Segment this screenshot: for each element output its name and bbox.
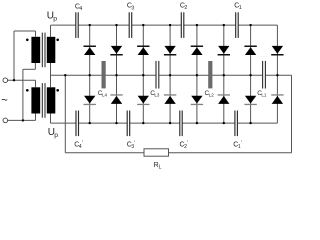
svg-text:p: p bbox=[54, 132, 58, 139]
svg-text:L2: L2 bbox=[209, 92, 215, 97]
svg-text:': ' bbox=[187, 140, 188, 146]
svg-text:~: ~ bbox=[1, 95, 7, 107]
svg-text:L: L bbox=[159, 164, 162, 170]
svg-text:1: 1 bbox=[239, 5, 242, 11]
svg-text:': ' bbox=[134, 140, 135, 146]
svg-text:2: 2 bbox=[184, 5, 187, 11]
svg-text:3: 3 bbox=[131, 5, 134, 11]
svg-text:L3: L3 bbox=[154, 92, 160, 97]
svg-text:': ' bbox=[82, 140, 83, 146]
svg-text:': ' bbox=[241, 140, 242, 146]
svg-text:p: p bbox=[53, 15, 57, 22]
svg-text:L1: L1 bbox=[261, 92, 267, 97]
svg-text:L4: L4 bbox=[102, 92, 108, 97]
svg-text:4: 4 bbox=[79, 6, 82, 12]
